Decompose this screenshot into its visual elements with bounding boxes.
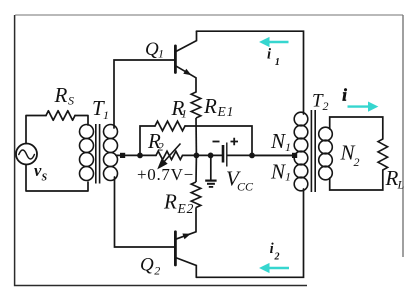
svg-text:R: R [385, 166, 399, 190]
resistor RE2 [191, 182, 201, 208]
current arrow i [348, 102, 378, 111]
wire T2 secondary bottom to RL [330, 170, 383, 190]
node ground tap [208, 153, 214, 159]
wire battery right to T2 tap [228, 154, 295, 156]
svg-text:2: 2 [274, 252, 280, 263]
battery VCC plates [223, 143, 227, 167]
svg-text:Q: Q [140, 255, 154, 276]
source vS symbol circle [16, 144, 37, 165]
resistor R1 [155, 121, 185, 131]
transformer T1 primary coil [80, 125, 94, 139]
node RE junction [194, 153, 200, 159]
svg-text:E1: E1 [217, 104, 235, 119]
svg-text:CC: CC [237, 179, 254, 193]
wire Q1 collector top run [197, 31, 304, 114]
svg-text:2: 2 [158, 140, 164, 154]
svg-text:i: i [342, 85, 347, 104]
svg-text:R: R [203, 94, 217, 118]
wire RS to T1 primary [75, 116, 88, 126]
svg-text:1: 1 [285, 140, 291, 154]
wire R2 right to battery [183, 154, 223, 156]
wire Q2 collector bottom run [196, 189, 303, 277]
Q2 emitter arrow [182, 234, 190, 240]
svg-text:N: N [270, 129, 286, 153]
transformer T2 secondary coil [319, 127, 333, 141]
wire T1 secondary top to Q1 base [114, 60, 175, 128]
resistor RE1 [191, 92, 201, 118]
svg-text:+0.7V−: +0.7V− [137, 165, 194, 184]
wire node to R2 [140, 154, 156, 156]
svg-text:i: i [267, 47, 271, 63]
current arrow i2 [260, 264, 289, 273]
wire T1 secondary bottom to Q2 base [115, 177, 175, 247]
svg-text:2: 2 [323, 99, 329, 113]
wire R1 left lead [140, 126, 155, 155]
svg-text:E2: E2 [177, 201, 195, 216]
svg-text:N: N [270, 160, 286, 184]
svg-text:1: 1 [285, 169, 291, 183]
transformer T1 core [96, 124, 100, 184]
svg-text:Q: Q [145, 39, 159, 60]
resistor R2 (variable) [156, 151, 183, 159]
node R1/R2 left junction [137, 153, 143, 159]
resistor RS [46, 111, 75, 121]
node battery right [249, 153, 255, 159]
transistor Q2 [175, 208, 196, 277]
svg-text:1: 1 [103, 108, 109, 122]
wire battery node to T2 tap [252, 154, 293, 156]
R2 wiper arrow [159, 144, 181, 168]
wire T2 secondary top to RL [330, 117, 383, 139]
wire T1 center tap to node [116, 154, 140, 156]
svg-text:i: i [270, 241, 274, 257]
resistor RL [378, 139, 388, 170]
svg-text:L: L [397, 177, 405, 191]
transistor Q1 [175, 31, 196, 92]
wire R1 right to battery-right node [185, 126, 252, 155]
svg-text:S: S [42, 172, 48, 183]
svg-text:S: S [68, 94, 74, 108]
svg-text:1: 1 [158, 46, 164, 60]
wire vS bottom to T1 primary bottom [26, 165, 88, 192]
transformer T1 secondary coil [104, 125, 118, 139]
node T2 center tap [292, 153, 297, 158]
node T1 center tap [120, 153, 125, 158]
svg-text:1: 1 [181, 107, 187, 121]
ground symbol [205, 155, 216, 187]
wire RE2 top to rail node [195, 155, 197, 182]
wire vS top to RS [26, 116, 46, 144]
svg-text:R: R [163, 190, 177, 214]
transformer T2 core [311, 110, 315, 192]
svg-text:2: 2 [154, 263, 160, 277]
current arrow i1 [260, 38, 288, 47]
transformer T2 primary coil [294, 112, 308, 126]
Q1 emitter arrow [183, 69, 191, 76]
battery minus sign [213, 141, 220, 143]
wire RE1 bottom to rail node [195, 118, 197, 155]
svg-text:R: R [54, 83, 68, 107]
battery plus sign [231, 138, 239, 145]
svg-text:1: 1 [275, 57, 280, 68]
svg-text:2: 2 [354, 155, 360, 169]
